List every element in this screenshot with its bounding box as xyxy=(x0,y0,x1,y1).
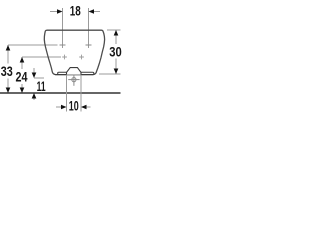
floor line xyxy=(0,92,121,94)
extension line 10 right xyxy=(80,75,82,112)
dim line 30 xyxy=(115,30,117,74)
arrow 10 left xyxy=(61,105,67,110)
svg-text:18: 18 xyxy=(70,3,81,19)
extension line 10 left xyxy=(66,75,68,112)
bottom lip right xyxy=(81,72,94,74)
reference line holes y45 xyxy=(8,44,58,46)
arrow 30 bottom xyxy=(114,69,119,75)
svg-text:33: 33 xyxy=(1,63,13,79)
arrow 30 top xyxy=(114,30,119,36)
extension line from hole R xyxy=(88,8,90,48)
bottom edge full xyxy=(55,74,93,76)
dim line 11 upper xyxy=(33,68,35,73)
cross tick hole L xyxy=(60,44,66,46)
dim line 24 xyxy=(21,57,23,93)
arrow 33 bottom xyxy=(6,88,11,94)
reference line y78 xyxy=(34,77,44,79)
arrow 11 top (down) xyxy=(32,73,37,79)
dim line 33 xyxy=(7,45,9,93)
leader 30 top xyxy=(107,29,121,31)
dim line 10 leader left xyxy=(56,106,62,108)
dim line 10 leader right xyxy=(86,106,91,108)
small cross supply L xyxy=(62,55,67,60)
dim line 11 lower xyxy=(33,94,35,101)
arrow 11 bottom (up) xyxy=(32,93,37,99)
drain crosshair vertical xyxy=(73,75,75,86)
svg-text:10: 10 xyxy=(69,98,79,114)
arrow 18 left xyxy=(57,9,63,14)
arrow 24 bottom xyxy=(20,88,25,94)
outlet hump xyxy=(67,68,82,75)
bidet body fill xyxy=(44,30,104,74)
small cross supply R xyxy=(79,55,84,60)
bidet outline xyxy=(44,30,104,74)
bottom lip left xyxy=(58,72,67,74)
leader 30 bottom xyxy=(99,73,121,75)
dim line 18 leader right xyxy=(94,11,101,13)
drain crosshair horizontal xyxy=(68,79,79,81)
svg-text:30: 30 xyxy=(109,44,122,60)
arrow 33 top xyxy=(6,45,11,51)
arrow 18 right xyxy=(89,9,95,14)
arrow 24 top xyxy=(20,57,25,63)
extension line from hole L xyxy=(62,8,64,48)
svg-text:24: 24 xyxy=(16,69,28,85)
arrow 10 right xyxy=(81,105,87,110)
reference line y57 xyxy=(22,56,61,58)
dim line 18 leader left xyxy=(50,11,58,13)
drain circle xyxy=(72,78,76,82)
svg-text:11: 11 xyxy=(37,78,46,94)
cross tick hole R xyxy=(86,44,92,46)
